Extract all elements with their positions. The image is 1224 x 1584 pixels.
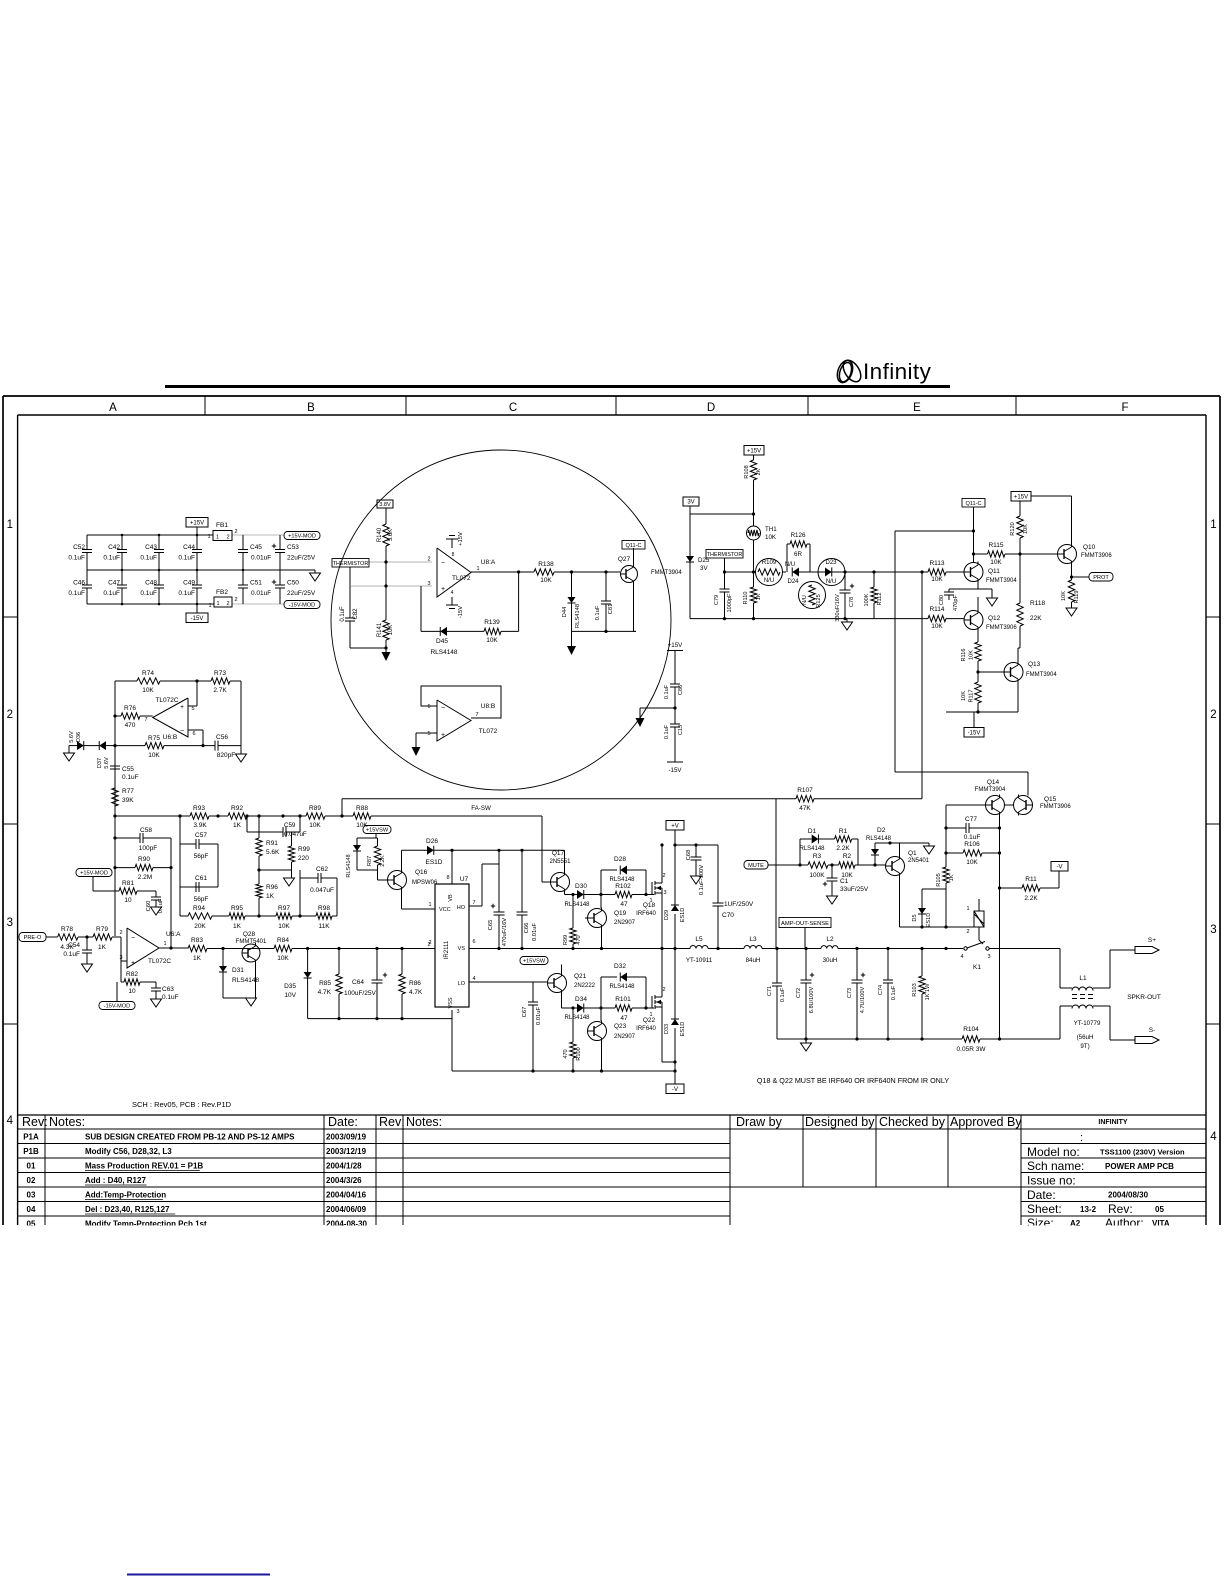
wire R79 to pin3 — [112, 936, 121, 938]
svg-text:INFINITY: INFINITY — [1098, 1119, 1127, 1126]
wire R102 to Q18 gate — [632, 894, 654, 896]
wire VS rail — [469, 948, 690, 950]
svg-text:+V: +V — [671, 823, 679, 829]
svg-text:C62: C62 — [316, 866, 328, 873]
wire left vertical main — [114, 681, 116, 936]
wire main rail — [187, 947, 189, 949]
resistor R97 10K — [276, 913, 292, 919]
diode D2 RLS4148 — [874, 843, 876, 849]
zone row ticks — [3, 616, 18, 618]
transistor Q15 FMMT3906 — [1014, 796, 1033, 815]
svg-text:+: + — [441, 586, 445, 593]
resistor R96 1K — [258, 870, 260, 884]
capacitor C13 0.1uF — [674, 708, 676, 724]
svg-text:7: 7 — [472, 900, 475, 906]
svg-text:-15V: -15V — [668, 767, 682, 774]
net flag +15V-MOD — [284, 532, 320, 540]
wire D45 to pin3 — [420, 586, 422, 631]
svg-text:Q15: Q15 — [1044, 796, 1057, 803]
svg-text:33uF/25V: 33uF/25V — [840, 886, 869, 893]
svg-text:10K: 10K — [969, 650, 975, 660]
svg-text:A: A — [109, 402, 117, 414]
wire output to L1 — [1059, 949, 1061, 989]
connector S+ — [1135, 947, 1159, 954]
svg-text:R117: R117 — [969, 690, 975, 703]
wire C86 ground branch — [640, 707, 675, 709]
wire +V vertical rail — [674, 830, 676, 905]
relay K1 contact — [964, 947, 967, 950]
svg-text:C43: C43 — [145, 544, 157, 551]
svg-text:FMMT3904: FMMT3904 — [975, 787, 1006, 793]
svg-text:10K: 10K — [990, 559, 1002, 566]
transistor Q16 MPSW06 — [388, 871, 407, 890]
wire D5 top — [922, 888, 946, 890]
wire Q27 emitter — [633, 584, 635, 632]
svg-text:470pF: 470pF — [953, 594, 959, 610]
svg-text:2: 2 — [7, 709, 13, 721]
wire D2 top link — [875, 842, 929, 844]
svg-text:R84: R84 — [277, 937, 289, 944]
wire Q17 collector — [564, 850, 566, 871]
svg-text:Q23: Q23 — [614, 1023, 627, 1030]
svg-text:0.1uF-100V: 0.1uF-100V — [699, 865, 705, 895]
svg-text:3: 3 — [7, 917, 13, 929]
power box +15V right — [1011, 492, 1031, 502]
svg-text:10K: 10K — [142, 687, 154, 694]
svg-text:Checked by: Checked by — [879, 1115, 946, 1129]
svg-text:R96: R96 — [266, 884, 278, 891]
wire U8:B input 5 to ground — [416, 732, 437, 734]
svg-text:04: 04 — [27, 1205, 36, 1214]
svg-text:-V: -V — [672, 1087, 678, 1093]
wire thermistor to op-amp pin3 — [349, 567, 351, 586]
svg-text:SPKR-OUT: SPKR-OUT — [1127, 994, 1161, 1001]
svg-text:R100: R100 — [576, 1047, 582, 1060]
transistor Q13 FMMT3904 — [1004, 663, 1023, 682]
svg-text:Date:: Date: — [328, 1115, 358, 1129]
svg-text:-15V: -15V — [458, 606, 464, 618]
svg-text:2: 2 — [234, 597, 237, 603]
svg-text:FMMT3906: FMMT3906 — [1081, 553, 1112, 559]
wire C68 C70 top — [675, 844, 718, 846]
capacitor C70 1UF/250V — [717, 845, 719, 903]
svg-text:1: 1 — [476, 566, 479, 572]
svg-text:Del : D23,40, R125,127: Del : D23,40, R125,127 — [85, 1205, 170, 1214]
capacitor C79 1000pF — [724, 572, 726, 589]
transistor Q27 FMMT3904 — [621, 566, 638, 583]
svg-text:C53: C53 — [287, 544, 299, 551]
svg-text:RLS4148: RLS4148 — [799, 846, 825, 852]
svg-text:C61: C61 — [195, 875, 207, 882]
resistor R74 10K — [137, 678, 160, 684]
ground open Q1 top — [928, 843, 930, 846]
wire Q21 emitter to D34 — [561, 993, 563, 1008]
svg-text:Mass Production REV.01 = P1B: Mass Production REV.01 = P1B — [85, 1162, 203, 1171]
wire Q13 emitter — [1017, 682, 1019, 712]
resistor R120 10K — [1019, 501, 1021, 516]
svg-text:10K: 10K — [931, 576, 943, 583]
svg-text:FMMT3904: FMMT3904 — [986, 578, 1017, 584]
svg-text:Rev:: Rev: — [379, 1115, 405, 1129]
zener D35 10V — [307, 949, 309, 973]
svg-text:Q12: Q12 — [988, 615, 1001, 622]
svg-text:470: 470 — [576, 935, 582, 944]
svg-text:2.2M: 2.2M — [138, 874, 152, 881]
svg-text:C74: C74 — [878, 985, 884, 995]
svg-text:1K 1W: 1K 1W — [925, 983, 931, 1001]
capacitor C47 0.1uF — [121, 570, 123, 585]
svg-text:C45: C45 — [250, 544, 262, 551]
svg-text:3: 3 — [427, 581, 430, 587]
capacitor C86 0.1uF — [674, 651, 676, 685]
table frame top — [18, 1114, 1206, 1116]
svg-text:10K: 10K — [1023, 524, 1029, 534]
resistor R77 39K — [112, 788, 118, 806]
capacitor C82 0.1uF — [349, 586, 351, 618]
svg-text:10V: 10V — [284, 992, 296, 999]
svg-text:C57: C57 — [195, 832, 207, 839]
svg-text:R90: R90 — [138, 856, 150, 863]
svg-text:4.7K: 4.7K — [318, 989, 332, 996]
svg-text:1: 1 — [7, 519, 13, 531]
svg-text:0.1uF: 0.1uF — [780, 987, 786, 1002]
capacitor C52 0.1uF — [86, 535, 88, 550]
svg-text:D45: D45 — [436, 638, 448, 645]
diode D27 RLS4148 — [353, 845, 361, 851]
wire +15V-MOD to R81 — [92, 877, 94, 892]
svg-text:−: − — [180, 728, 184, 735]
ground arrow U8:B — [412, 747, 421, 756]
svg-text:TL072C: TL072C — [155, 697, 178, 704]
svg-text:R99: R99 — [563, 935, 569, 945]
svg-text:4: 4 — [1210, 1131, 1217, 1143]
detail circle — [331, 450, 671, 790]
wire mid bus — [87, 569, 315, 571]
svg-text:N/U: N/U — [785, 562, 795, 568]
ferrite bead FB2 — [214, 597, 232, 607]
resistor R84 10K — [274, 945, 292, 951]
svg-text:C82: C82 — [353, 608, 359, 620]
svg-text:C68: C68 — [686, 850, 692, 861]
svg-text:RLS4148: RLS4148 — [564, 1015, 590, 1021]
svg-text:LO: LO — [458, 981, 466, 987]
svg-text:R112: R112 — [877, 593, 883, 606]
svg-text:1: 1 — [208, 603, 211, 609]
power -15V — [186, 613, 208, 623]
power box -V right — [1051, 862, 1068, 872]
svg-text:56pF: 56pF — [194, 896, 209, 903]
transistor Q28 FMMT5401 — [242, 944, 260, 962]
svg-text:0.1uF: 0.1uF — [140, 590, 157, 597]
svg-text:R78: R78 — [61, 926, 73, 933]
svg-text:C64: C64 — [352, 979, 364, 986]
wire Q22 source down — [661, 1011, 663, 1062]
svg-text:47: 47 — [620, 1015, 628, 1022]
svg-text:-V: -V — [1057, 864, 1063, 870]
resistor R116 10K — [977, 630, 979, 643]
svg-text:0.047uF: 0.047uF — [310, 887, 334, 894]
svg-text:D23: D23 — [825, 560, 837, 566]
wire Q1 collector — [899, 843, 901, 856]
svg-text:5.6V: 5.6V — [69, 731, 75, 743]
svg-text:1K: 1K — [233, 822, 242, 829]
svg-text:VCC: VCC — [439, 907, 451, 913]
svg-text:R97: R97 — [278, 905, 290, 912]
svg-text:C70: C70 — [722, 912, 734, 919]
svg-text:R95: R95 — [231, 905, 243, 912]
net flag AMP-OUT-SENSE — [779, 918, 831, 928]
svg-text:N/U: N/U — [802, 595, 808, 605]
svg-text:3: 3 — [119, 955, 122, 961]
wire +15VSW branch — [375, 834, 377, 839]
svg-text:D: D — [707, 402, 715, 414]
ground open arrow near C53 — [303, 569, 315, 571]
svg-text:2N2907: 2N2907 — [614, 1034, 636, 1040]
relay K1 coil — [974, 911, 984, 927]
net flag +15V-MOD U6A — [76, 869, 112, 877]
wire R83 to Q28 — [207, 948, 274, 950]
resistor R141 10K — [383, 620, 389, 640]
resistor R2 10K — [839, 862, 855, 868]
svg-text:FA-SW: FA-SW — [471, 805, 491, 812]
resistor R95 1K — [229, 913, 245, 919]
svg-text:0.01uF: 0.01uF — [251, 555, 271, 562]
svg-text:Notes:: Notes: — [406, 1115, 442, 1129]
svg-text:R3: R3 — [813, 853, 822, 860]
svg-text:PROT: PROT — [1093, 575, 1109, 581]
svg-text:−: − — [441, 705, 445, 712]
capacitor C74 0.1uF — [887, 949, 889, 981]
resistor R3 100K — [808, 862, 828, 868]
svg-text:C55: C55 — [122, 766, 134, 773]
svg-text:POWER AMP PCB: POWER AMP PCB — [1105, 1162, 1174, 1171]
ground open output bus — [805, 1039, 807, 1043]
capacitor C64 100uF/25V — [376, 949, 378, 981]
svg-text:R82: R82 — [126, 971, 138, 978]
ground arrow below D44 — [571, 631, 573, 646]
IC U7 IR2111 — [435, 884, 469, 1007]
wire 3V line — [689, 506, 691, 514]
svg-text:R86: R86 — [409, 980, 421, 987]
capacitor C46 0.1uF — [86, 570, 88, 585]
svg-text:2: 2 — [966, 929, 969, 935]
wire top bus — [87, 534, 213, 536]
svg-text:0.1uF: 0.1uF — [68, 590, 85, 597]
wire output bottom bus — [777, 1038, 962, 1040]
svg-text:0.1uF: 0.1uF — [664, 724, 670, 739]
svg-text:7: 7 — [475, 712, 478, 718]
wire U8:B feedback box — [421, 686, 501, 718]
svg-text:4: 4 — [472, 976, 475, 982]
capacitor C50 22uF/25V electrolytic — [279, 570, 281, 585]
svg-text:Q10: Q10 — [1083, 544, 1096, 551]
resistor R105 1K — [945, 853, 947, 867]
svg-text:R1: R1 — [839, 828, 848, 835]
svg-text:C13: C13 — [678, 725, 684, 735]
svg-text:2: 2 — [428, 940, 431, 946]
zener D36 5.6V — [64, 753, 75, 761]
svg-text:1: 1 — [163, 941, 166, 947]
svg-text:TSS1100 (230V) Version: TSS1100 (230V) Version — [1100, 1148, 1185, 1157]
svg-text:47K: 47K — [799, 805, 811, 812]
power box +15V thermal — [744, 446, 764, 456]
svg-text:-15V-MOD: -15V-MOD — [104, 1004, 130, 1010]
resistor R88 10K — [353, 813, 371, 819]
wire Q15 collector up — [1027, 772, 1029, 796]
svg-text:0.05R 3W: 0.05R 3W — [957, 1046, 987, 1053]
ground open C63 — [151, 999, 162, 1007]
svg-text:HO: HO — [457, 905, 466, 911]
resistor R89 10K — [306, 813, 325, 819]
ground arrow mid — [636, 718, 645, 727]
svg-text:C: C — [509, 402, 517, 414]
svg-text:R107: R107 — [797, 787, 813, 794]
power +15V — [186, 518, 208, 528]
svg-text:Modify C56, D28,32, L3: Modify C56, D28,32, L3 — [85, 1147, 172, 1156]
power box 3V — [683, 497, 699, 506]
svg-text:C73: C73 — [847, 988, 853, 998]
svg-text:2004/04/16: 2004/04/16 — [326, 1191, 367, 1200]
svg-text:10: 10 — [124, 897, 132, 904]
svg-text:C44: C44 — [183, 544, 195, 551]
transistor Q11 FMMT3904 — [964, 563, 983, 582]
wire Q16 collector to D26 line — [401, 850, 403, 869]
resistor R126 6R loop — [786, 544, 788, 572]
capacitor C60 0.1uF — [155, 891, 157, 897]
resistor R92 1K — [228, 813, 247, 819]
wire Q23 emitter — [601, 1042, 603, 1072]
svg-text:-15V: -15V — [968, 730, 981, 736]
ground open C60 — [151, 907, 162, 915]
svg-text:6: 6 — [472, 939, 475, 945]
svg-text:P1A: P1A — [23, 1133, 39, 1142]
wire Q11 emitter node — [977, 582, 979, 589]
capacitor C63 0.1uF — [155, 982, 157, 988]
svg-text:−: − — [441, 560, 445, 567]
svg-text:C58: C58 — [140, 827, 152, 834]
svg-text:MUTE: MUTE — [748, 863, 764, 869]
svg-text:01: 01 — [27, 1162, 36, 1171]
net flag MUTE — [744, 861, 768, 870]
svg-text:470uF/16V: 470uF/16V — [502, 918, 508, 946]
svg-text:R116: R116 — [961, 649, 967, 662]
svg-text:2N2907: 2N2907 — [614, 920, 636, 926]
svg-text:+: + — [441, 732, 445, 739]
svg-text:1: 1 — [1210, 519, 1216, 531]
ground open C54 — [82, 964, 93, 972]
wire Q13 base — [978, 671, 1004, 673]
wire D31 to ground — [223, 997, 256, 999]
svg-text:E: E — [913, 402, 921, 414]
resistor R79 1K — [93, 934, 112, 940]
resistor R110 1K — [753, 572, 755, 587]
wire L2 to relay — [838, 948, 963, 950]
svg-text:220: 220 — [298, 855, 309, 862]
svg-text:IRF640: IRF640 — [636, 911, 656, 917]
svg-text:Rev:: Rev: — [22, 1115, 48, 1129]
wire latch verticals — [894, 531, 896, 772]
svg-text:R99: R99 — [298, 846, 310, 853]
wire VB stub — [451, 850, 453, 884]
net flag PRE-O — [19, 933, 46, 942]
svg-text:Sheet:: Sheet: — [1027, 1202, 1062, 1216]
svg-text:RLS4148: RLS4148 — [866, 836, 892, 842]
svg-text:R73: R73 — [214, 670, 226, 677]
svg-text:7: 7 — [144, 717, 147, 723]
resistor R103 1K 1W — [921, 949, 923, 977]
resistor R87 2.2K — [374, 846, 380, 865]
svg-text:2: 2 — [226, 601, 229, 607]
wire emitter bus — [572, 630, 637, 632]
capacitor C42 0.1uF — [121, 535, 123, 550]
svg-text:FMMT3904: FMMT3904 — [1026, 672, 1057, 678]
svg-text:R106: R106 — [964, 841, 980, 848]
wire protect bottom bus — [690, 618, 874, 620]
svg-text:FMMT3904: FMMT3904 — [651, 570, 682, 576]
svg-text:FMMT3906: FMMT3906 — [1040, 804, 1071, 810]
svg-text:Infinity: Infinity — [863, 359, 932, 384]
svg-text:84uH: 84uH — [746, 957, 761, 964]
resistor R139 10K — [484, 628, 501, 634]
svg-text:D26: D26 — [426, 838, 438, 845]
wire FA-SW line — [342, 798, 776, 800]
wire -15V-MOD stem — [116, 982, 118, 1002]
svg-text:C46: C46 — [73, 580, 85, 587]
svg-text:N/U: N/U — [764, 578, 774, 584]
svg-text:D5: D5 — [912, 914, 918, 921]
svg-text:0.1uF: 0.1uF — [891, 985, 897, 1000]
capacitor C66 0.01uF — [521, 850, 523, 912]
transistor Q17 2N5551 — [551, 873, 570, 892]
svg-text:Date:: Date: — [1027, 1188, 1056, 1202]
ground open R119 — [1066, 608, 1077, 616]
svg-text:1: 1 — [428, 902, 431, 908]
svg-text:2.2K: 2.2K — [1024, 895, 1038, 902]
svg-text:10K: 10K — [388, 625, 394, 636]
svg-text:C1: C1 — [840, 878, 849, 885]
wire Q16 base — [377, 870, 379, 880]
svg-text:10K: 10K — [278, 923, 290, 930]
ground arrow below R141 — [382, 652, 391, 661]
wire op-amp input 2 — [368, 561, 432, 563]
svg-text:0.01uF: 0.01uF — [532, 923, 538, 942]
svg-text:470: 470 — [125, 722, 136, 729]
svg-text:05: 05 — [1155, 1205, 1164, 1214]
svg-text:1K: 1K — [949, 874, 955, 881]
svg-text:C47: C47 — [108, 580, 120, 587]
resistor R99b 470 — [572, 895, 574, 929]
svg-text:L5: L5 — [695, 936, 703, 943]
capacitor C78 330uF/16V — [844, 572, 846, 590]
svg-text:1: 1 — [216, 601, 219, 607]
svg-text:+: + — [180, 704, 184, 711]
svg-text:D1: D1 — [808, 828, 817, 835]
svg-text:Designed by: Designed by — [805, 1115, 875, 1129]
inductor L5 YT-10911 — [690, 946, 708, 949]
svg-text:0.1uF: 0.1uF — [162, 994, 179, 1001]
wire bottom row y916 — [180, 915, 188, 917]
op-amp U8:B TL072 — [437, 700, 471, 741]
ground open D31 — [246, 998, 257, 1006]
resistor R138 10K — [534, 569, 554, 575]
capacitor C53 22uF/25V electrolytic — [279, 535, 281, 550]
wire Q14 base run — [946, 804, 986, 806]
mosfet Q22 IRF640 — [651, 996, 653, 1008]
svg-text:Notes:: Notes: — [49, 1115, 85, 1129]
svg-text:S-: S- — [1149, 1027, 1156, 1034]
diode D26 ES1D — [402, 849, 428, 851]
svg-text:3: 3 — [1210, 924, 1216, 936]
